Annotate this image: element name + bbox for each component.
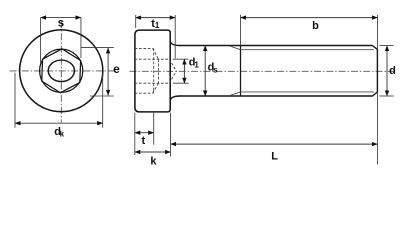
svg-text:b: b — [312, 20, 319, 32]
extension line tip bottom — [377, 92, 379, 164]
dimension d — [379, 46, 395, 97]
extension line tip top — [377, 15, 379, 49]
shank top line — [179, 45, 373, 47]
under-head fillet bottom — [170, 96, 180, 100]
dimension k — [135, 152, 171, 167]
thread start line — [240, 46, 242, 97]
head outer circle dk — [20, 30, 103, 112]
end view centerline vertical — [60, 21, 62, 123]
dimension e — [81, 47, 120, 96]
hex socket hidden lines — [135, 48, 177, 93]
svg-text:s: s — [213, 66, 218, 75]
thread runout bottom — [230, 92, 241, 96]
svg-text:k: k — [150, 155, 157, 167]
shank bottom line — [179, 95, 373, 97]
thread minor top — [241, 49, 374, 51]
svg-text:k: k — [60, 130, 65, 139]
svg-text:1: 1 — [155, 21, 160, 30]
svg-text:1: 1 — [194, 60, 199, 69]
svg-text:d: d — [389, 65, 396, 77]
socket e-circle — [40, 49, 83, 92]
pilot hole circle — [48, 60, 74, 82]
dimension t1 — [136, 15, 176, 58]
extension line head left bottom — [134, 113, 136, 155]
dimension ds — [205, 46, 218, 97]
svg-text:t: t — [142, 135, 146, 147]
bolt head side view — [135, 30, 170, 112]
thread minor bottom — [241, 91, 374, 93]
tip chamfer top — [372, 46, 377, 50]
side view centerline — [130, 70, 396, 72]
end view centerline horizontal — [10, 70, 115, 72]
svg-text:e: e — [113, 62, 120, 76]
dimension b — [241, 15, 378, 46]
extension line head right bottom — [170, 113, 172, 157]
dimension L — [171, 144, 378, 162]
dimension t — [135, 133, 154, 147]
svg-text:L: L — [271, 150, 278, 162]
hex socket — [42, 49, 81, 93]
svg-text:s: s — [58, 17, 64, 29]
dimension d1 — [173, 57, 200, 84]
dimension dk — [15, 73, 103, 139]
extension line socket depth t — [153, 112, 155, 145]
tip end face — [376, 49, 378, 92]
thread runout top — [230, 46, 241, 50]
under-head fillet top — [170, 42, 180, 46]
tip chamfer bottom — [372, 92, 377, 96]
dimension s — [41, 17, 81, 63]
